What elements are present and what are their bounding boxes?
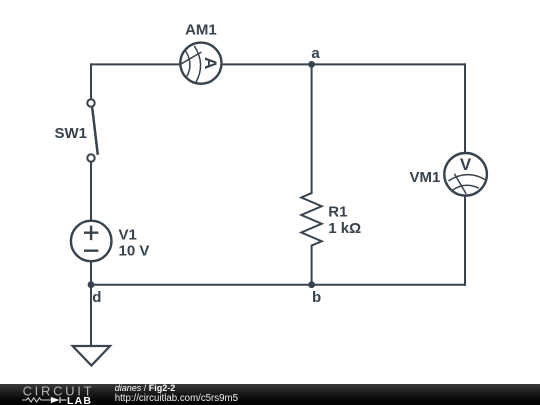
wire left upper (top rail to SW1) [90, 64, 92, 104]
CircuitLab logo [22, 384, 94, 405]
svg-text:http://circuitlab.com/c5rs9m5: http://circuitlab.com/c5rs9m5 [115, 393, 238, 404]
svg-text:dianes / Fig2-2: dianes / Fig2-2 [115, 383, 176, 393]
svg-text:A: A [201, 57, 220, 69]
node b [308, 281, 321, 306]
svg-text:d: d [92, 289, 101, 306]
ammeter AM1 [180, 21, 221, 83]
wire left lower (SW1 to node d through V1) [90, 157, 92, 285]
wire right (through VM1) [464, 64, 466, 284]
node d [88, 281, 102, 306]
wire middle upper (node a to R1) [311, 64, 313, 193]
svg-text:a: a [311, 45, 320, 62]
svg-text:10 V: 10 V [119, 243, 150, 260]
node a [308, 45, 320, 68]
svg-text:VM1: VM1 [410, 169, 441, 186]
resistor R1 1 kOhm [301, 193, 361, 246]
footer bar [0, 384, 540, 405]
wire top (node a rail) [91, 63, 465, 65]
voltage source V1 10 V [71, 221, 149, 262]
svg-text:SW1: SW1 [54, 125, 87, 142]
wire middle lower (R1 to node b) [311, 246, 313, 285]
switch SW1 [54, 99, 97, 161]
voltmeter VM1 [410, 153, 487, 196]
svg-text:b: b [312, 289, 321, 306]
svg-text:1 kΩ: 1 kΩ [328, 220, 361, 237]
svg-text:V: V [460, 155, 472, 174]
svg-text:LAB: LAB [67, 395, 92, 405]
svg-text:R1: R1 [328, 204, 347, 221]
svg-text:V1: V1 [119, 226, 137, 243]
wire ground stem [90, 285, 92, 347]
ground [73, 346, 111, 366]
wire bottom (node d to node b to right) [91, 284, 465, 286]
svg-text:AM1: AM1 [185, 21, 217, 38]
